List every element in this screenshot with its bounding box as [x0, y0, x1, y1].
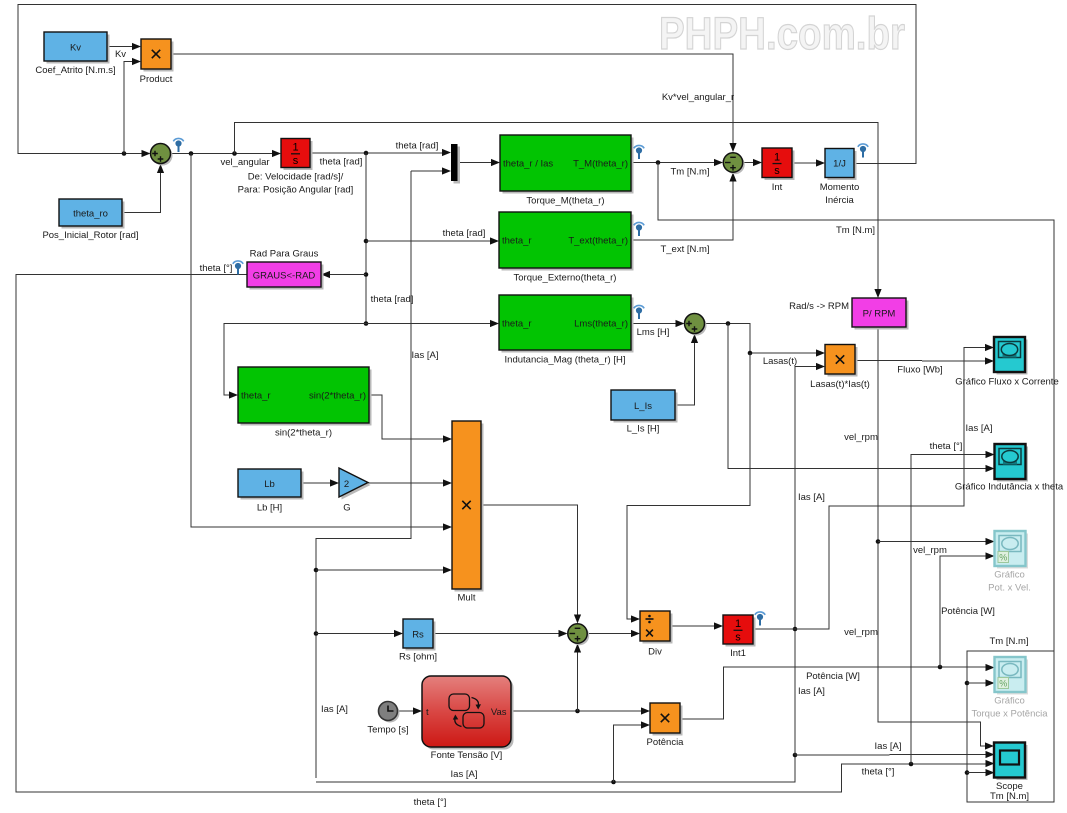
sum junction Sum1 (+ +) [151, 138, 184, 165]
wire: Tm stub into Grafico Torque x Potencia input 2 [967, 679, 995, 686]
svg-text:Potência [W]: Potência [W] [806, 671, 860, 682]
block subsystem Torque_M(theta_r) [500, 135, 644, 207]
svg-text:vel_rpm: vel_rpm [844, 432, 878, 443]
scope Scope (Tm [N.m]) [990, 743, 1029, 803]
node: junction Ias to Rs [314, 631, 319, 636]
svg-text:Lb [H]: Lb [H] [257, 503, 282, 514]
node: junction vel_rpm to Grafico Pot x Vel [876, 539, 881, 544]
block Rs [ohm] [399, 619, 437, 663]
wire: Int output to 1/J [792, 159, 825, 166]
svg-text:%: % [999, 679, 1007, 689]
svg-text:vel_angular: vel_angular [220, 157, 269, 168]
svg-text:Momento: Momento [820, 182, 860, 193]
svg-text:vel_rpm: vel_rpm [913, 545, 947, 556]
wire: GRAUS output theta [deg] big loop to bottom [16, 263, 995, 808]
sum junction Sum2 (+ +) [685, 314, 707, 336]
scope Grafico Torque x Potencia (disabled) [971, 657, 1048, 720]
svg-text:De: Velocidade [rad/s]/: De: Velocidade [rad/s]/ [248, 172, 344, 183]
mux Mux (2 inputs) [451, 144, 460, 184]
wire: Sum1 output vel_angular to integrator 1/s [171, 150, 282, 168]
svg-text:Torque x Potência: Torque x Potência [971, 709, 1048, 720]
svg-text:Gráfico: Gráfico [994, 570, 1025, 581]
wire: vel_rpm to Grafico Pot x Vel input 1 [878, 538, 995, 556]
svg-text:Potência: Potência [647, 737, 685, 748]
wire: Ias main riser from Int1 to Lasas multiplier input 2 [795, 363, 825, 755]
node: junction Ias to Potencia input 2 [611, 780, 616, 785]
wire: Potencia output to Grafico Torque x Potencia [680, 664, 995, 719]
wire: Vas output to Potencia input 1 [511, 707, 650, 714]
block Lb [H] [238, 469, 304, 514]
gain G (value 2) [339, 468, 371, 514]
wire: branch up from feedback wire to Product input 2 [124, 58, 141, 154]
svg-text:Indutancia_Mag (theta_r) [H]: Indutancia_Mag (theta_r) [H] [505, 355, 626, 366]
svg-text:Gráfico: Gráfico [994, 696, 1025, 707]
svg-text:Pot. x Vel.: Pot. x Vel. [988, 583, 1031, 594]
node: junction theta to Indutancia and sin loop [364, 321, 369, 326]
svg-text:Torque_Externo(theta_r): Torque_Externo(theta_r) [514, 273, 617, 284]
svg-text:Inércia: Inércia [825, 195, 854, 206]
svg-text:Fonte Tensão [V]: Fonte Tensão [V] [431, 750, 503, 761]
node: junction theta to GRAUS converter [364, 272, 369, 277]
svg-text:theta [°]: theta [°] [930, 441, 963, 452]
block GRAUS<-RAD (Rad Para Graus) [233, 249, 324, 290]
wire: Product output Kv*vel_angular_r down to Sum4 top [171, 54, 737, 152]
svg-text:Fluxo [Wb]: Fluxo [Wb] [897, 365, 942, 376]
svg-text:1: 1 [735, 618, 741, 630]
block L_Is [H] [611, 390, 678, 435]
svg-text:Tm [N.m]: Tm [N.m] [990, 791, 1029, 802]
svg-text:theta [rad]: theta [rad] [396, 141, 439, 152]
block P/RPM (Rad/s -> RPM converter) [789, 298, 908, 330]
svg-text:1: 1 [292, 142, 298, 154]
svg-text:Int1: Int1 [730, 648, 746, 659]
wire: Indutancia output Lms [H] to Sum2 [631, 320, 685, 338]
wire: Lasas branch down to Grafico Indutancia input 2 [728, 324, 995, 473]
wire: Tm long route to bottom-right scope group [658, 163, 1054, 803]
wire: theta to GRAUS<-RAD input (leftward) [321, 271, 366, 278]
block subsystem Torque_Externo(theta_r) [499, 212, 644, 284]
block integrator 1/s (De: Velocidade / Para: Posicao Angular) [238, 139, 354, 196]
svg-text:1: 1 [774, 151, 780, 163]
wire: theta[deg] up to Grafico Indutancia input 1 [911, 441, 995, 764]
wire: Sum2 output Lasas(t) [705, 321, 825, 367]
svg-text:theta_r: theta_r [502, 319, 532, 330]
svg-text:Torque_M(theta_r): Torque_M(theta_r) [526, 196, 604, 207]
wire: Vas up to Sum3 bottom [574, 644, 581, 712]
svg-text:Ias [A]: Ias [A] [412, 350, 439, 361]
svg-text:2: 2 [344, 479, 349, 490]
wire: Ias up to Potencia input 2 [614, 721, 651, 782]
svg-text:GRAUS<-RAD: GRAUS<-RAD [253, 271, 316, 282]
svg-text:t: t [426, 707, 429, 718]
wire: integrator output theta [rad] to Mux input 1 [310, 141, 451, 168]
wire: theta to Indutancia_Mag input [366, 294, 499, 327]
svg-text:theta [rad]: theta [rad] [443, 228, 486, 239]
svg-text:Ias [A]: Ias [A] [321, 704, 348, 715]
svg-text:Rad/s -> RPM: Rad/s -> RPM [789, 301, 849, 312]
block Product (multiplier) [140, 39, 174, 85]
svg-text:s: s [293, 155, 299, 167]
svg-text:Rs [ohm]: Rs [ohm] [399, 652, 437, 663]
wire: theta to Torque_Externo input [366, 228, 499, 245]
wire: theta_ro output to Sum1 bottom [122, 164, 164, 213]
node: junction Tm to Scope input 4 [965, 770, 970, 775]
svg-text:Rs: Rs [412, 630, 424, 641]
wire: Int1 output to Ias riser and Fluxo scope [753, 344, 994, 629]
svg-text:Ias [A]: Ias [A] [875, 741, 902, 752]
svg-text:G: G [343, 503, 350, 514]
svg-text:Vas: Vas [491, 707, 507, 718]
wire: Lb output to Gain [301, 479, 339, 486]
wire: Rs output to Sum3 [433, 630, 568, 637]
block Mult (product of 4 inputs) [452, 421, 484, 604]
block subsystem Indutancia_Mag (theta_r) [H] [499, 295, 644, 366]
svg-text:T_ext [N.m]: T_ext [N.m] [660, 244, 709, 255]
svg-text:theta_r / Ias: theta_r / Ias [503, 159, 553, 170]
svg-text:Ias [A]: Ias [A] [798, 686, 825, 697]
svg-text:Lasas(t): Lasas(t) [763, 356, 797, 367]
node: junction vel_angular to Mult column [189, 151, 194, 156]
svg-text:Ias [A]: Ias [A] [798, 492, 825, 503]
block Kv (Coef_Atrito [N.m.s]) [35, 32, 115, 76]
svg-text:Ias [A]: Ias [A] [966, 423, 993, 434]
svg-text:Kv*vel_angular_r: Kv*vel_angular_r [662, 92, 734, 103]
svg-text:Tempo [s]: Tempo [s] [367, 725, 408, 736]
svg-text:Mult: Mult [458, 593, 476, 604]
svg-text:Div: Div [648, 647, 662, 658]
svg-text:Para: Posição Angular [rad]: Para: Posição Angular [rad] [238, 185, 354, 196]
svg-text:s: s [735, 632, 741, 644]
svg-text:sin(2*theta_r): sin(2*theta_r) [309, 391, 366, 402]
svg-text:%: % [999, 553, 1007, 563]
block Lasas(t)*Ias(t) (multiplier) [810, 345, 870, 391]
wire: vel_angular tap up and across to P/RPM [235, 123, 882, 299]
svg-text:Gráfico Fluxo x Corrente: Gráfico Fluxo x Corrente [955, 377, 1058, 388]
clock Tempo [s] [367, 702, 408, 736]
wire: theta loop to sin(2*theta_r) input [224, 324, 366, 399]
scope Grafico Indutancia x theta [955, 444, 1064, 493]
node: junction Ias bottom to Scope input 2 [793, 753, 798, 758]
svg-text:PHPH.com.br: PHPH.com.br [659, 8, 905, 59]
svg-text:Tm [N.m]: Tm [N.m] [989, 636, 1028, 647]
block subsystem sin(2*theta_r) [238, 367, 372, 439]
block Div (divider) [640, 611, 673, 658]
svg-text:Product: Product [140, 74, 173, 85]
node: junction Potencia to Grafico Pot x Vel [938, 665, 943, 670]
node: junction Int1 output on Ias riser [793, 627, 798, 632]
wire: P/RPM output vel_rpm down to Scope input 1 [844, 327, 994, 750]
svg-text:Ias [A]: Ias [A] [451, 769, 478, 780]
svg-text:T_M(theta_r): T_M(theta_r) [573, 159, 628, 170]
node: junction Ias to Mult input 4 [314, 568, 319, 573]
svg-text:T_ext(theta_r): T_ext(theta_r) [568, 236, 628, 247]
svg-text:sin(2*theta_r): sin(2*theta_r) [275, 428, 332, 439]
wire: Ias to Scope input 2 [795, 741, 995, 758]
svg-text:1/J: 1/J [833, 159, 846, 170]
svg-text:Lms(theta_r): Lms(theta_r) [574, 319, 628, 330]
block theta_ro (Pos_Inicial_Rotor [rad]) [42, 199, 138, 241]
svg-text:Rad Para Graus: Rad Para Graus [250, 249, 319, 260]
wire: Lasas branch to Div input 1 [627, 353, 750, 623]
wire: sin output to Mult input 1 [369, 395, 452, 443]
svg-text:L_Is [H]: L_Is [H] [627, 424, 660, 435]
svg-text:theta_r: theta_r [241, 391, 271, 402]
wire: Clock output to chart input t [398, 707, 423, 714]
block Potencia (multiplier) [647, 703, 685, 748]
wire: Sum3 output to Div input 2 [587, 630, 640, 637]
wire: Lasas multiplier output Fluxo [Wb] to Grafico Fluxo input 2 [855, 357, 994, 375]
scope Grafico Pot x Vel (disabled) [988, 531, 1031, 594]
svg-text:Int: Int [772, 182, 783, 193]
svg-text:theta_ro: theta_ro [73, 209, 108, 220]
wire: Ias to Rs input [316, 630, 403, 715]
svg-text:theta [rad]: theta [rad] [320, 157, 363, 168]
node: junction on feedback wire feeding Product [122, 151, 127, 156]
wire: theta column down [365, 153, 367, 324]
block 1/J (Momento Inercia) [820, 144, 869, 206]
wire: Torque_Externo output T_ext to Sum4 bottom [631, 173, 737, 256]
svg-text:s: s [774, 165, 780, 177]
svg-text:L_Is: L_Is [634, 401, 652, 412]
svg-text:Pos_Inicial_Rotor [rad]: Pos_Inicial_Rotor [rad] [42, 230, 138, 241]
node: junction Vas to Sum3 bottom [575, 709, 580, 714]
svg-text:theta [°]: theta [°] [862, 767, 895, 778]
node: junction Tm to scope group [656, 160, 661, 165]
wire: Kv output to Product input 1 [107, 43, 141, 60]
scope Grafico Fluxo x Corrente [955, 337, 1058, 388]
wire: Torque_M output Tm [N.m] to Sum4 [631, 159, 723, 178]
svg-text:Tm [N.m]: Tm [N.m] [670, 167, 709, 178]
svg-text:Kv: Kv [70, 43, 81, 54]
svg-text:Lb: Lb [264, 479, 275, 490]
wire: big velocity feedback loop (1/J output to Sum1 input, around top-left) [18, 5, 916, 164]
wire: Potencia up to Grafico Pot x Vel input 2 [940, 552, 995, 667]
svg-text:theta [rad]: theta [rad] [371, 294, 414, 305]
wire: Mux output to Torque_M input [458, 159, 501, 166]
wire: Ias to Mult input 4 [316, 566, 452, 573]
svg-text:Potência [W]: Potência [W] [941, 606, 995, 617]
svg-text:Coef_Atrito [N.m.s]: Coef_Atrito [N.m.s] [35, 65, 115, 76]
block Int1 (integrator 1/s) [723, 612, 765, 659]
wire: Ias bottom run [316, 755, 795, 782]
node: junction theta distribution column [364, 151, 369, 156]
node: junction vel_angular to P/RPM tap [232, 151, 237, 156]
svg-text:theta_r: theta_r [502, 236, 532, 247]
wire: Ias distribution: Mux input 2 column [316, 167, 451, 778]
wire: vel_angular long branch down to Mult input 3 [191, 154, 452, 531]
block Int (integrator 1/s) [762, 148, 795, 193]
svg-text:Tm [N.m]: Tm [N.m] [836, 225, 875, 236]
wire: Mult output to Sum3 top [481, 505, 581, 624]
node: junction theta to Torque_Externo [364, 239, 369, 244]
sum junction Sum3 (- - +) [568, 624, 589, 645]
svg-text:P/ RPM: P/ RPM [863, 309, 896, 320]
wire: Tm stub into Scope input 4 [967, 769, 995, 776]
svg-text:Gráfico Indutância x theta: Gráfico Indutância x theta [955, 482, 1064, 493]
svg-text:Lasas(t)*Ias(t): Lasas(t)*Ias(t) [810, 379, 870, 390]
svg-text:Lms [H]: Lms [H] [637, 327, 670, 338]
svg-text:theta [°]: theta [°] [414, 797, 447, 808]
svg-text:vel_rpm: vel_rpm [844, 627, 878, 638]
chart Fonte Tensao [V] (stateflow voltage source) [422, 676, 514, 761]
watermark PHPH.com.br [659, 8, 905, 59]
wire: Sum4 output to Int [743, 159, 763, 166]
svg-text:Kv: Kv [115, 49, 126, 60]
wire: Div output to Int1 [670, 622, 723, 629]
wire: Gain output to Mult input 2 [368, 479, 452, 486]
node: junction theta[deg] to Indutancia scope [909, 762, 914, 767]
svg-text:theta [°]: theta [°] [200, 263, 233, 274]
sum junction Sum4 (- - +) [723, 153, 744, 174]
node: junction Tm to Grafico Torque x Potencia [965, 681, 970, 686]
wire: L_Is output up to Sum2 bottom [675, 334, 698, 405]
